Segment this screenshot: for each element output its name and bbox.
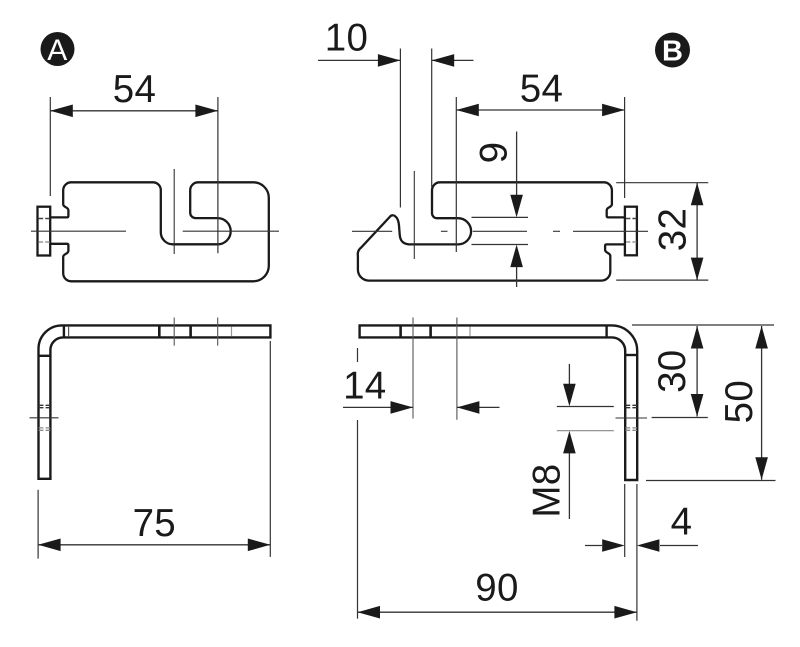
hole centerline B: [616, 417, 648, 419]
hole hidden lines lower B: [625, 427, 637, 429]
svg-text:54: 54: [520, 68, 563, 111]
centerline B top view: [352, 230, 392, 232]
dim M8 B stub lower: [557, 430, 614, 432]
dim 30 B top extension line: [632, 324, 774, 326]
label A circle: [41, 32, 75, 66]
slot wall tick 1 A side: [158, 325, 161, 337]
screw head B slot dashes lower: [626, 241, 636, 243]
dim 10 B dimension line left part: [318, 59, 400, 61]
bend tangent tick B side: [605, 325, 607, 337]
dim 90 B left extension: [357, 420, 359, 619]
tip center tick A side: [217, 318, 219, 346]
screw head A slot dashes lower: [39, 241, 50, 243]
svg-text:14: 14: [343, 364, 386, 407]
dim 4 B dimension line left part: [585, 545, 602, 547]
slot axis line B top view: [413, 171, 415, 259]
tip end tick A side: [231, 327, 233, 337]
svg-text:32: 32: [652, 208, 695, 251]
dim 54 B extension line left: [455, 97, 457, 252]
dim 4 B right extension (leg edge extended): [636, 484, 638, 621]
dim 75 A extension line left: [37, 490, 39, 559]
dim 4 B dimension line right part: [660, 545, 698, 547]
svg-text:90: 90: [475, 567, 518, 610]
dim 4 B left extension: [624, 484, 626, 557]
dim 9 B lower line: [516, 267, 518, 287]
dim 32 B extension line bottom: [616, 279, 708, 281]
dim 90 B left extension upper stub: [357, 348, 359, 362]
bend tangent tick A vertical leg: [39, 355, 51, 357]
svg-text:30: 30: [651, 349, 694, 392]
dim 10 B extension line right: [431, 49, 433, 188]
tip end tick B side: [469, 327, 471, 337]
slot wall tick 2 A side: [189, 325, 192, 337]
dim 30 B center stub: [652, 417, 708, 419]
dim 9 B upper line: [516, 132, 518, 196]
svg-text:10: 10: [325, 17, 368, 60]
tip center tick B side / dim 14 extension: [456, 318, 458, 420]
dim 10 B dimension line right part: [432, 59, 474, 61]
svg-text:50: 50: [718, 380, 761, 423]
dim 54 A extension line right: [217, 97, 219, 253]
dim 75 A extension line right: [269, 341, 271, 557]
dim 32 B extension line top: [616, 182, 708, 184]
slot mouth edge tick A side: [68, 326, 70, 337]
dim 54 B extension line right: [624, 97, 626, 198]
hole hidden lines lower A: [39, 427, 51, 429]
hole hidden lines upper B: [625, 404, 637, 406]
dim 10 B extension line left: [399, 49, 401, 208]
dim 9 B extension stub upper: [472, 216, 529, 218]
dim 50 B bottom extension line: [646, 480, 776, 482]
dim 14 B dimension line left part: [343, 406, 413, 408]
slot axis tick B side / dim 14 extension: [412, 318, 414, 419]
svg-text:B: B: [662, 36, 683, 68]
dim 54 B dimension line: [456, 109, 624, 111]
svg-text:75: 75: [133, 502, 176, 545]
dim 75 A dimension line: [38, 544, 270, 546]
dim M8 B stub upper: [557, 406, 614, 408]
screw head B: [625, 207, 637, 256]
screw head A: [38, 207, 51, 256]
dim 50 B dimension line: [761, 326, 763, 480]
hole hidden lines upper A: [39, 404, 51, 406]
screw head B slot dashes upper: [626, 218, 636, 220]
dim 9 B extension stub lower: [472, 244, 529, 246]
dim 54 A extension line left: [49, 97, 51, 196]
svg-text:9: 9: [473, 142, 516, 164]
dim 90 B dimension line: [358, 611, 637, 613]
bend tangent tick B vertical leg: [625, 354, 637, 356]
label B circle: [655, 33, 690, 68]
slot axis line A top view: [173, 169, 175, 254]
svg-text:M8: M8: [526, 464, 569, 518]
dim 30 B dimension line: [696, 326, 698, 417]
throat edge tick 1 B side: [399, 325, 402, 337]
throat edge tick 2 B side: [429, 325, 432, 337]
part A top view outline: [50, 182, 269, 281]
dim 54 A dimension line: [50, 110, 218, 112]
slot axis tick A side: [173, 318, 175, 346]
svg-text:54: 54: [113, 68, 156, 111]
screw head A slot dashes upper: [39, 218, 50, 220]
dim M8 B lower line: [568, 452, 570, 519]
dim 32 B dimension line: [696, 183, 698, 280]
part A side view outline: [39, 325, 271, 478]
dim 14 B dimension line right part: [457, 406, 500, 408]
svg-text:4: 4: [671, 501, 693, 544]
dim M8 B upper line: [568, 364, 570, 384]
part B top view outline: [358, 182, 625, 280]
bend tangent tick A side: [63, 325, 65, 337]
svg-text:A: A: [47, 34, 67, 67]
part B side view outline: [360, 325, 638, 480]
hole centerline A: [30, 417, 59, 419]
centerline A top view: [31, 230, 126, 232]
